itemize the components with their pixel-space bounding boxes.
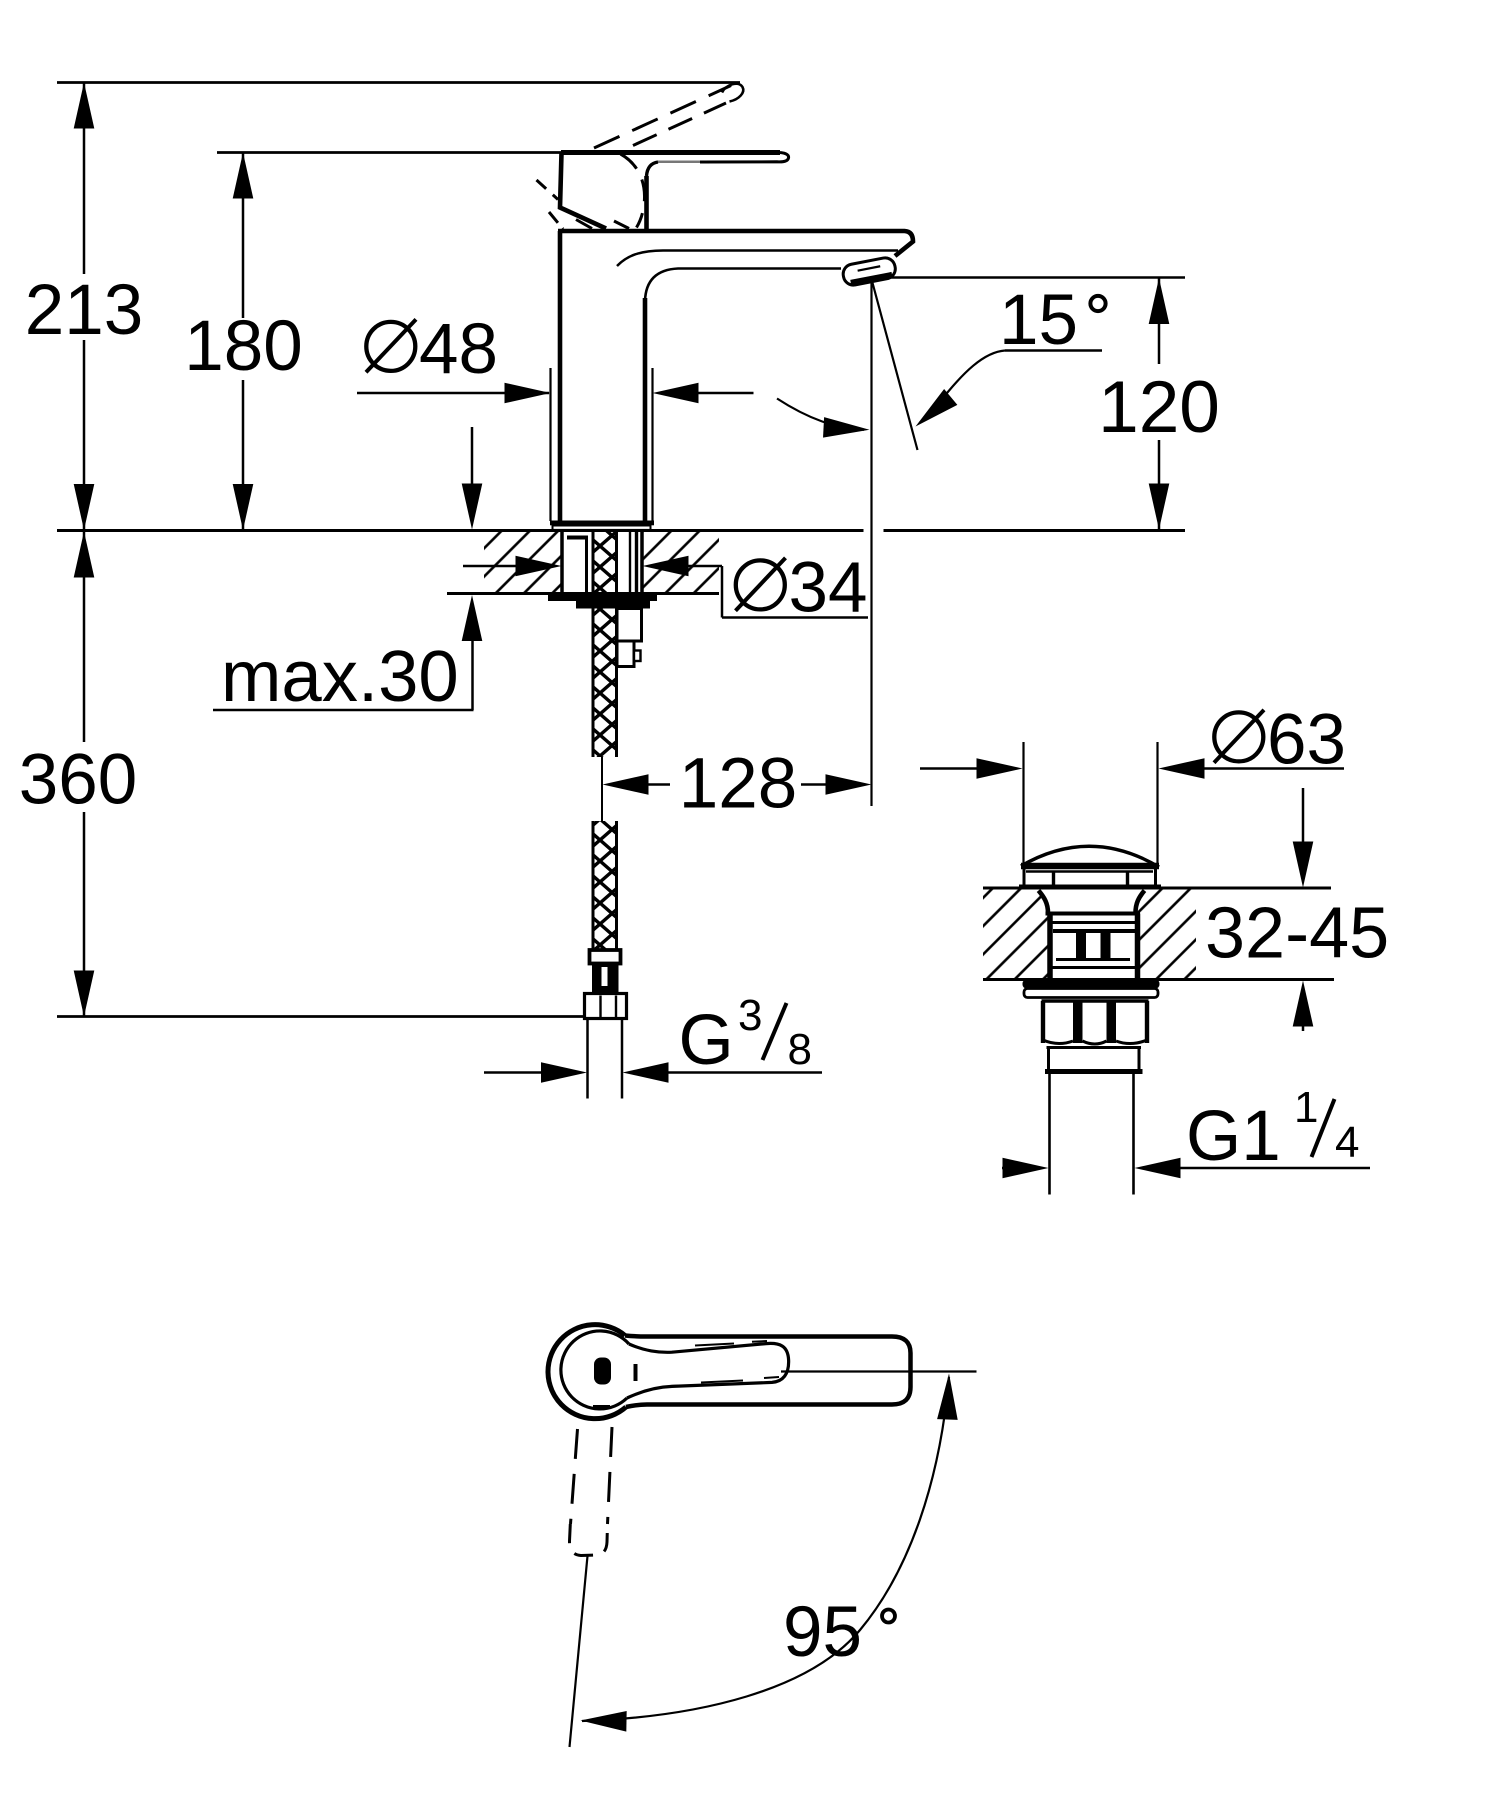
deck top surface line (57, 529, 864, 532)
svg-text:3: 3 (738, 991, 762, 1040)
drain collar (1045, 1048, 1143, 1072)
mounting hole edges in deck (560, 531, 564, 593)
hose G3/8 pipe end (588, 1019, 623, 1099)
braided supply hose upper segment (593, 532, 617, 758)
drain washer under deck (1023, 980, 1160, 989)
drain tail pipe (1050, 1074, 1134, 1195)
hose centerline through 128 gap (601, 757, 603, 821)
dimension 128 (603, 745, 872, 824)
svg-text:32-45: 32-45 (1205, 894, 1389, 974)
drain deck slab (983, 888, 1389, 980)
dimension G1 1/4 (1002, 1083, 1370, 1178)
handle pivot inner circle (561, 1331, 629, 1409)
svg-text:max.30: max.30 (221, 636, 459, 717)
deck hatching left (484, 532, 562, 592)
dimension 95 degrees (580, 1373, 959, 1731)
handle base (cartridge cover) (560, 153, 606, 229)
dimension 360 (19, 532, 137, 1017)
95 deg reference centerline (781, 1370, 977, 1372)
spout tip vertical reference line (870, 279, 872, 806)
body right edge below spout (643, 298, 648, 521)
dimension max.30 (deck thickness) (213, 427, 482, 717)
deck bottom line (447, 592, 719, 595)
braided supply hose lower segment (593, 821, 617, 950)
pop-up rod connector (617, 609, 642, 667)
shank parts in hole (567, 531, 637, 592)
dimension O63 (920, 701, 1346, 867)
spout angle slanted line (15 deg) (872, 281, 918, 450)
svg-text:G1: G1 (1186, 1097, 1281, 1176)
dimension 180 (184, 153, 302, 531)
handle open position (dashed) (537, 84, 744, 229)
extension line closed lever (180 level) (217, 151, 561, 154)
base plate (553, 526, 651, 530)
spout underside line with inner corner radius (645, 269, 841, 302)
svg-text:120: 120 (1098, 367, 1220, 448)
body shadow line under spout top (617, 251, 898, 267)
drain flange plate (1024, 989, 1158, 998)
svg-text:63: 63 (1267, 701, 1346, 780)
faucet body column (550, 231, 913, 530)
svg-text:213: 213 (25, 271, 143, 350)
hose hex nut (585, 994, 627, 1019)
hose crimp collar (590, 950, 621, 964)
dimension 213 (25, 83, 143, 531)
svg-text:4: 4 (1335, 1118, 1359, 1167)
aerator outlet (841, 256, 897, 287)
svg-text:1: 1 (1294, 1083, 1318, 1132)
swung handle axis line (570, 1556, 588, 1747)
lever shading dashes (670, 1341, 779, 1386)
spout level extension line (120 top) (886, 276, 1185, 279)
svg-text:G: G (679, 1001, 734, 1080)
svg-text:95: 95 (783, 1593, 862, 1672)
svg-text:360: 360 (19, 741, 137, 820)
pivot bottom dash (593, 1405, 610, 1409)
handle lever (closed, solid) (561, 153, 789, 230)
body/spout top edge with right corner (558, 231, 913, 256)
lever outline (rounded rectangle) (625, 1336, 911, 1408)
deck hatching right (642, 532, 719, 592)
dimension 32-45 leaders (1293, 788, 1314, 1031)
svg-text:128: 128 (679, 745, 797, 824)
lever inner profile (627, 1343, 789, 1398)
dimension 15 degrees (777, 281, 1106, 440)
pivot slot mark (594, 1358, 611, 1385)
svg-text:15: 15 (999, 281, 1078, 360)
handle pivot outer circle (548, 1325, 626, 1419)
washer and locknut under deck (548, 593, 657, 602)
drain cap (mushroom plug) (1019, 846, 1161, 887)
extension line top of handle (213 level) (57, 81, 740, 84)
dimension O48 (body diameter) (357, 310, 754, 521)
dimension G3/8 (484, 991, 822, 1083)
drain hex nut (1042, 1001, 1149, 1044)
svg-text:34: 34 (789, 549, 868, 628)
drain body through deck (1039, 891, 1145, 980)
svg-text:48: 48 (419, 310, 498, 389)
dimension 120 (1098, 278, 1220, 530)
extension line hose end (360 bottom) (57, 1015, 583, 1018)
svg-text:8: 8 (788, 1025, 812, 1074)
countertop deck section (57, 531, 1185, 594)
hose ferrule (592, 964, 619, 994)
body bottom thick base (550, 521, 654, 526)
swung handle (dashed) (569, 1427, 612, 1556)
body left edge (558, 231, 563, 521)
pivot dash mark (634, 1364, 638, 1381)
svg-text:180: 180 (184, 307, 302, 386)
dimension O34 (463, 549, 868, 628)
